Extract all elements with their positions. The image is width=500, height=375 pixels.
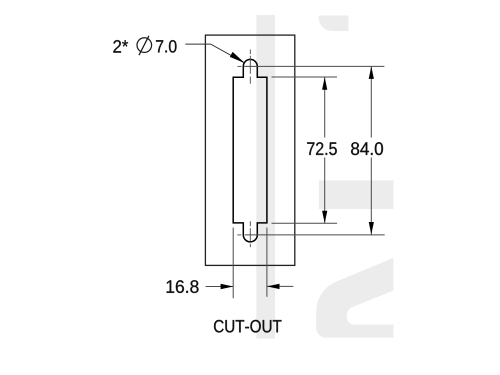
extension line 16.8 right [266,228,268,297]
label 7.0 [156,40,177,53]
extension line 72.5 bottom (shoulder level) [272,222,338,224]
label 16.8 [167,280,199,293]
label CUT-OUT [214,320,282,333]
leader arrowhead [230,52,245,63]
watermark swoosh [316,258,393,338]
dimension line 72.5 [324,77,326,137]
panel rectangle [205,35,294,265]
watermark bar [256,15,275,339]
centerline vertical bottom circle [249,221,251,247]
centerline horizontal dash top circle [238,65,242,67]
extension line 16.8 left [232,228,234,299]
extension line 72.5 top (shoulder level) [272,76,338,78]
leader line 2x d7.0 [185,44,244,63]
dimension line 84.0 [370,66,372,137]
cut-out slot outline [233,59,267,241]
dimension arrow 16.8 left [206,286,234,288]
dimension arrow 16.8 right [267,285,293,287]
watermark top block [319,16,349,32]
label 2* [113,40,128,53]
centerline horizontal dash bottom circle [237,234,241,236]
extension line 84.0 top (circle center level) [244,65,385,67]
extension line 84.0 bottom (circle center level) [245,234,385,236]
centerline vertical top circle [249,50,251,84]
watermark middle block [319,180,394,209]
diameter symbol [137,36,152,55]
label 72.5 [307,142,337,155]
label 84.0 [351,142,383,155]
